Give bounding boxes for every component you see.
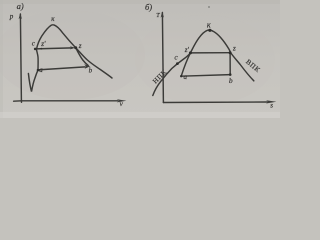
speck top right — [208, 6, 210, 8]
left: point z' — [40, 48, 42, 50]
svg-text:а): а) — [17, 1, 24, 11]
isobar c-z (top line) — [35, 48, 72, 49]
svg-text:z': z' — [40, 40, 46, 48]
svg-text:к: к — [207, 20, 211, 29]
svg-text:б): б) — [145, 2, 152, 12]
s axis — [163, 101, 268, 104]
isotherm z'-z (top line) — [190, 52, 230, 54]
right: point b — [229, 73, 232, 76]
right: point c — [176, 62, 179, 65]
svg-text:T: T — [156, 12, 160, 19]
svg-text:z: z — [232, 45, 236, 53]
isobar a-b (bottom line) — [38, 67, 85, 70]
svg-text:а: а — [184, 73, 188, 81]
left: point z — [74, 46, 77, 49]
dots — [34, 29, 232, 78]
svg-text:b: b — [89, 67, 93, 75]
adiabat z-b — [76, 48, 89, 66]
right: point z' — [189, 51, 192, 54]
svg-text:p: p — [9, 12, 14, 20]
adiabat z-b — [229, 53, 231, 75]
right: point k — [208, 29, 211, 32]
T axis arrowhead — [161, 12, 164, 18]
s axis arrowhead — [266, 100, 276, 103]
dome left branch with start hook — [28, 25, 54, 92]
T axis — [162, 13, 163, 103]
arrowhead at b — [84, 64, 90, 69]
lower boundary curve NPK — [153, 53, 191, 96]
NPK curve up to k — [190, 30, 212, 53]
p axis arrowhead — [19, 13, 22, 19]
arrowhead at z — [70, 46, 76, 49]
svg-text:s: s — [270, 102, 273, 110]
isotherm b-a (bottom line) — [181, 75, 230, 77]
upper boundary curve VPK — [213, 31, 254, 81]
svg-text:z': z' — [184, 46, 190, 54]
p axis — [20, 14, 21, 102]
right: point a — [180, 75, 182, 77]
svg-text:z: z — [78, 42, 82, 50]
svg-text:b: b — [229, 76, 233, 85]
adiabat a-z' — [181, 53, 190, 76]
right: point z — [229, 51, 232, 54]
left: point c — [34, 48, 37, 51]
left: point a — [37, 69, 40, 72]
v axis — [14, 100, 118, 102]
v axis arrowhead — [117, 99, 127, 102]
dome right branch — [55, 25, 113, 78]
svg-text:а: а — [39, 66, 43, 74]
